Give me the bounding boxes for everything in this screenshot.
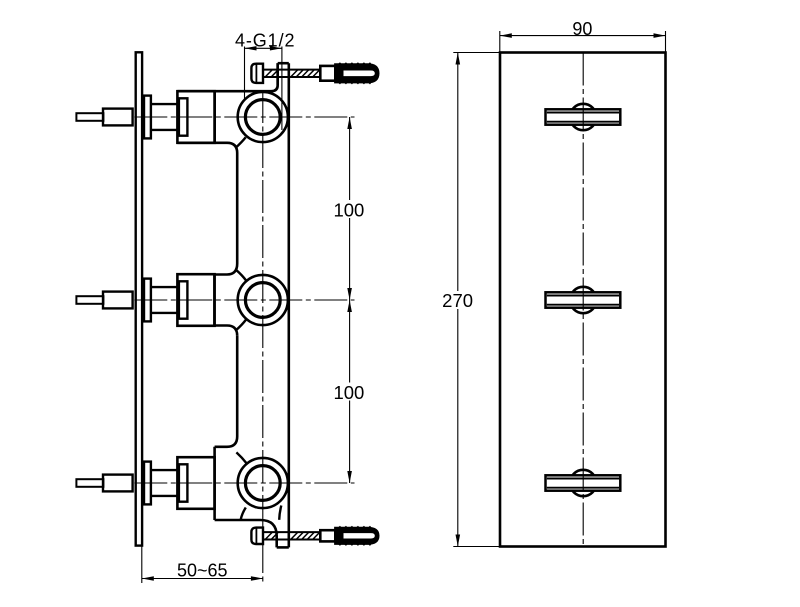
bottom valve flange on plate: [144, 462, 151, 505]
svg-text:100: 100: [333, 199, 364, 220]
fillet spine to bottom body top: [215, 437, 238, 447]
dim line 90: [500, 35, 666, 37]
blend middle circle upper-left: [236, 270, 246, 281]
svg-text:50~65: 50~65: [177, 560, 228, 580]
arrow up at top center: [347, 117, 352, 129]
middle valve spindle rod: [76, 296, 103, 304]
top screw thread hatching: [266, 70, 320, 77]
bottom valve cartridge housing: [177, 457, 214, 509]
top valve flange on plate: [144, 96, 151, 139]
blend middle circle lower-left: [236, 319, 246, 330]
extension line 90 right: [665, 31, 667, 52]
top port inner circle G1/2: [245, 100, 280, 135]
bottom anchor slot: [344, 533, 375, 538]
middle handle knob circle: [570, 287, 596, 313]
bottom screw head slot: [255, 528, 257, 544]
bottom screw head: [251, 528, 263, 544]
top ear left edge: [276, 63, 279, 85]
svg-text:4-G1/2: 4-G1/2: [235, 31, 295, 51]
dim line 4-G1/2: [245, 47, 282, 49]
middle valve horizontal centerline: [134, 299, 354, 301]
left view vertical centerline: [262, 90, 264, 582]
bottom valve spindle body: [103, 475, 133, 492]
top valve body bottom edge with fillet into spine: [177, 143, 237, 153]
bottom valve body left edge: [213, 447, 216, 520]
blend bottom circle lower-left: [241, 508, 246, 520]
svg-text:90: 90: [572, 19, 592, 39]
bottom handle bar inner bottom line: [547, 487, 619, 489]
blend bottom circle lower-right: [279, 506, 281, 520]
svg-text:270: 270: [442, 290, 473, 311]
bottom screw thread hatching: [266, 533, 320, 540]
bottom port boss outer circle: [238, 458, 288, 508]
arrow down at middle center (upper seg): [347, 288, 352, 300]
top valve horizontal centerline: [134, 116, 354, 118]
middle valve neck lower line: [151, 312, 178, 314]
arrow left 4-G1/2: [245, 46, 257, 50]
top handle bar: [546, 109, 621, 124]
blend top circle lower-left: [236, 137, 246, 147]
top wall anchor body: [335, 64, 378, 82]
top screw shaft: [263, 69, 320, 71]
extension line 270 top: [453, 52, 500, 54]
top screw head: [251, 64, 263, 83]
bottom handle bar inner top line: [547, 478, 619, 480]
middle port boss outer circle: [238, 275, 288, 325]
arrow left 90: [500, 33, 512, 38]
top anchor ribs: [339, 63, 371, 84]
bottom port inner circle G1/2: [245, 466, 280, 501]
top handle bar inner top line: [547, 112, 619, 114]
top valve body top edge with fillet into ear: [177, 63, 277, 91]
leader line left of 4-G1/2: [244, 47, 246, 101]
fillet spine to middle body top: [214, 264, 237, 275]
top handle bar inner bottom line: [547, 121, 619, 123]
middle valve body left edge: [213, 275, 216, 326]
bottom valve neck lower line: [151, 495, 178, 497]
bottom handle bar: [546, 475, 621, 490]
middle valve cartridge housing: [177, 274, 214, 326]
bottom valve spindle rod: [76, 479, 103, 487]
middle valve spindle body: [103, 292, 133, 309]
arrow up 270: [456, 53, 461, 65]
leader line right of 4-G1/2: [281, 47, 283, 131]
bottom ear bottom edge: [277, 546, 289, 549]
bottom valve horizontal centerline: [134, 482, 354, 484]
middle handle bar inner bottom line: [547, 304, 619, 306]
top anchor slot: [344, 71, 375, 77]
top screw head slot: [255, 64, 257, 83]
bottom valve neck upper line: [151, 469, 178, 471]
bottom valve bonnet: [179, 464, 188, 501]
extension line 270 bottom: [453, 546, 500, 548]
dim text 100 upper bg: [332, 200, 367, 218]
arrow right 4-G1/2: [270, 46, 282, 50]
extension line below plate: [141, 546, 143, 583]
spine left edge (top-middle): [236, 153, 239, 264]
arrow down at bottom center: [347, 471, 352, 483]
extension line 90 left: [499, 31, 501, 52]
top valve neck lower line: [151, 129, 178, 131]
middle handle bar inner top line: [547, 295, 619, 297]
top valve housing-body divider: [213, 91, 216, 143]
arrow left 50~65: [142, 576, 154, 581]
bottom anchor collar: [320, 530, 335, 541]
dim text 100 lower bg: [332, 383, 367, 401]
middle valve flange on plate: [144, 279, 151, 322]
top ear top edge: [278, 62, 289, 65]
bottom handle knob circle: [570, 470, 596, 496]
middle port inner circle G1/2: [245, 283, 280, 318]
top anchor collar: [320, 66, 335, 81]
middle valve bonnet: [179, 281, 188, 318]
top valve neck upper line: [151, 103, 178, 105]
front view vertical centerline: [582, 53, 584, 547]
wall mounting face plate (side view): [136, 52, 142, 545]
arrow right 50~65: [251, 576, 263, 581]
top valve cartridge housing: [177, 91, 214, 143]
dim line 100 spacing: [349, 117, 351, 483]
bottom anchor ribs: [339, 526, 371, 545]
svg-text:100: 100: [333, 382, 364, 403]
front plate outline: [500, 53, 666, 547]
middle handle bar: [546, 292, 621, 307]
top port boss outer circle: [238, 92, 288, 142]
bottom screw shaft: [263, 531, 320, 533]
spine left edge (middle-bottom): [236, 336, 239, 437]
arrow right 90: [654, 33, 666, 38]
bottom wall anchor body: [335, 528, 378, 544]
arrow down 270: [456, 535, 461, 547]
fillet middle body bottom to spine: [214, 326, 237, 336]
dim line 50~65: [142, 578, 263, 580]
arrow up at middle center (lower seg): [347, 300, 352, 312]
top valve bonnet: [179, 98, 188, 135]
top handle knob circle: [570, 104, 596, 130]
dim line 270: [457, 53, 459, 547]
top valve spindle rod: [76, 113, 103, 121]
middle valve neck upper line: [151, 286, 178, 288]
bracket bar right edge: [287, 63, 290, 547]
blend bottom circle upper-left: [236, 452, 246, 463]
dim text 270 bg: [440, 291, 476, 309]
top valve spindle body: [103, 109, 133, 126]
bottom valve body bottom edge with fillet into ear: [215, 520, 277, 547]
